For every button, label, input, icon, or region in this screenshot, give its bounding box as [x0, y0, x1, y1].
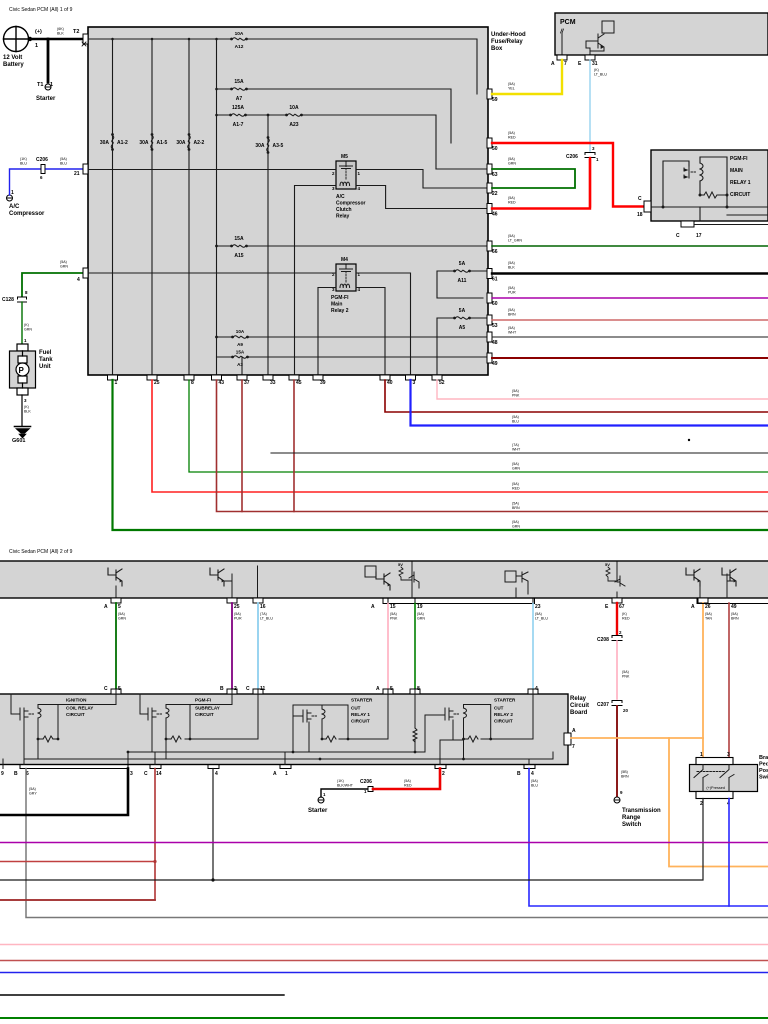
svg-text:(5A): (5A)	[508, 326, 515, 330]
node pin 50	[487, 138, 492, 148]
svg-text:Box: Box	[491, 46, 503, 52]
wire RED brn row	[0, 960, 768, 962]
svg-text:5V: 5V	[605, 562, 610, 567]
svg-text:PNK: PNK	[390, 617, 398, 621]
node pin 21	[83, 164, 88, 174]
svg-text:20: 20	[623, 708, 629, 713]
wire vertical branch A1-5	[151, 39, 153, 375]
svg-text:(5A): (5A)	[234, 612, 241, 616]
svg-text:17: 17	[696, 233, 702, 239]
svg-text:4: 4	[77, 277, 80, 283]
wire BLU board pinB4 down-right	[529, 769, 768, 907]
svg-text:CIRCUIT: CIRCUIT	[66, 712, 85, 717]
node pin 61	[487, 269, 492, 279]
wire RED row to pinC14	[0, 861, 155, 863]
connector C207	[612, 701, 622, 706]
svg-text:12 Volt: 12 Volt	[3, 55, 22, 61]
svg-text:Civic Sedan PCM (All) 1 of 9: Civic Sedan PCM (All) 1 of 9	[9, 7, 73, 13]
svg-text:15A: 15A	[234, 236, 244, 242]
svg-text:(5A): (5A)	[531, 779, 538, 783]
svg-text:A23: A23	[289, 122, 298, 128]
node pin 46	[487, 204, 492, 214]
svg-text:(7A): (7A)	[512, 443, 519, 447]
brake switch contacts	[694, 765, 734, 792]
svg-text:5A: 5A	[459, 261, 466, 267]
node bottom pin 25	[147, 375, 157, 380]
svg-text:CIRCUIT: CIRCUIT	[730, 192, 750, 198]
svg-text:BRN: BRN	[731, 617, 739, 621]
svg-text:A: A	[572, 728, 576, 734]
relay circuit board	[0, 694, 568, 765]
svg-text:125A: 125A	[232, 105, 244, 111]
node pin 48	[487, 332, 492, 342]
wire A15 row to pin66	[217, 245, 489, 247]
wire WHT pin48 right	[492, 336, 768, 338]
fuse A7 15A	[230, 88, 248, 91]
wire C206 to box pin 21 BLU	[46, 168, 82, 170]
wire vertical branch A3-5	[267, 115, 269, 375]
svg-text:A5: A5	[459, 325, 466, 331]
svg-text:Civic Sedan PCM (All) 2 of 9: Civic Sedan PCM (All) 2 of 9	[9, 549, 73, 555]
svg-text:SUBRELAY: SUBRELAY	[195, 706, 220, 711]
svg-text:(5A): (5A)	[29, 787, 36, 791]
node pin C 18	[644, 201, 651, 212]
connector C128	[18, 297, 27, 302]
node pin 66	[487, 241, 492, 251]
wire A1-7/A23 row	[217, 115, 437, 169]
wire RED C206 to joint	[589, 158, 591, 207]
svg-text:(5A): (5A)	[508, 234, 515, 238]
wire A9 row to pin 48	[217, 336, 489, 338]
svg-text:GRN: GRN	[512, 467, 520, 471]
svg-text:A: A	[104, 604, 108, 610]
svg-text:66: 66	[492, 249, 498, 255]
svg-text:LT_BLU: LT_BLU	[260, 617, 273, 621]
svg-text:1: 1	[700, 752, 703, 758]
fuse A1-2 30A	[111, 133, 114, 151]
svg-text:BLU: BLU	[512, 420, 519, 424]
wire BRN C207 to transmission range switch	[616, 706, 618, 797]
svg-text:43: 43	[219, 380, 225, 386]
relay2 drive resistor from pin 8	[413, 690, 417, 752]
svg-text:Compressor: Compressor	[336, 201, 366, 207]
wire BLK brake pin2 down-left	[0, 799, 703, 881]
svg-text:5V: 5V	[398, 562, 403, 567]
pcm driver square	[365, 566, 376, 577]
node bottom pin 3	[406, 375, 416, 380]
svg-text:(5A): (5A)	[512, 415, 519, 419]
wire RED pin25 down-right	[152, 380, 768, 492]
svg-text:39: 39	[320, 380, 326, 386]
svg-text:A: A	[551, 61, 555, 67]
wire LT_BLU pcm16 to board C11	[257, 603, 259, 690]
wire PUR row	[0, 842, 768, 844]
svg-text:BLU: BLU	[20, 162, 27, 166]
svg-text:WHT: WHT	[508, 331, 517, 335]
svg-text:18: 18	[637, 212, 643, 218]
fuse A11 5A with loop to pin 60	[437, 271, 488, 298]
svg-text:30A: 30A	[139, 140, 149, 146]
wire GRN row	[0, 1017, 768, 1019]
pcm driver for pin 5	[108, 568, 122, 586]
connector C208	[612, 636, 622, 641]
node board pin C 5	[111, 689, 121, 694]
pcm driver for 49	[722, 568, 736, 586]
svg-text:63: 63	[492, 172, 498, 178]
wire A3 row to pin 49	[217, 356, 489, 358]
svg-text:P: P	[19, 366, 25, 375]
board bottom connector strip left	[20, 765, 128, 769]
wire RED pcm67 to C208	[616, 603, 618, 634]
svg-text:C: C	[638, 196, 642, 202]
svg-text:1: 1	[35, 43, 38, 49]
wire GRN pin1 down-right	[113, 380, 768, 530]
svg-text:A1-5: A1-5	[157, 140, 168, 146]
svg-text:PUR: PUR	[234, 617, 242, 621]
svg-text:C: C	[246, 686, 250, 692]
svg-text:(5A): (5A)	[512, 462, 519, 466]
svg-text:Range: Range	[622, 815, 641, 821]
svg-text:8: 8	[191, 380, 194, 386]
svg-text:C: C	[104, 686, 108, 692]
wire PUR pcm25 to board B2	[231, 603, 233, 690]
svg-text:(6K): (6K)	[57, 27, 64, 31]
svg-text:C: C	[144, 771, 148, 777]
svg-text:(5A): (5A)	[512, 520, 519, 524]
svg-text:3: 3	[727, 752, 730, 758]
svg-text:BLK: BLK	[57, 32, 64, 36]
relay M5 A/C compressor clutch relay	[332, 154, 366, 220]
node PCM pin 16	[253, 598, 263, 603]
relay1 internal wiring	[651, 206, 768, 208]
svg-text:A1-2: A1-2	[117, 140, 128, 146]
pcm internal driver pin A7	[561, 33, 563, 55]
svg-text:(5A): (5A)	[508, 308, 515, 312]
svg-text:(5A): (5A)	[508, 131, 515, 135]
wire RED pin46 to C206	[492, 160, 590, 209]
svg-text:(5A): (5A)	[390, 612, 397, 616]
pcm internal driver pin E31	[602, 21, 614, 33]
svg-text:52: 52	[439, 380, 445, 386]
svg-text:Switch: Switch	[622, 822, 642, 828]
svg-text:(5A): (5A)	[731, 612, 738, 616]
node pin 4	[83, 268, 88, 278]
svg-text:CIRCUIT: CIRCUIT	[195, 712, 214, 717]
svg-text:CIRCUIT: CIRCUIT	[494, 719, 513, 724]
svg-text:YEL: YEL	[508, 87, 515, 91]
svg-text:BLU: BLU	[60, 162, 67, 166]
wire RED dark row left	[0, 899, 155, 901]
svg-text:Relay 2: Relay 2	[331, 308, 349, 314]
svg-text:A1-7: A1-7	[233, 122, 244, 128]
wire M5 pin4 to pin 46	[356, 186, 488, 209]
svg-text:(5A): (5A)	[508, 261, 515, 265]
svg-text:BRN: BRN	[512, 506, 520, 510]
svg-text:(5A): (5A)	[118, 612, 125, 616]
svg-text:C: C	[676, 233, 680, 239]
svg-text:(7A): (7A)	[260, 612, 267, 616]
node pin 63	[487, 164, 492, 174]
svg-text:BLK/WHT: BLK/WHT	[337, 784, 354, 788]
svg-text:IGNITION: IGNITION	[66, 698, 87, 703]
svg-text:G601: G601	[12, 438, 25, 444]
svg-text:16: 16	[260, 604, 266, 610]
svg-text:A: A	[273, 771, 277, 777]
svg-text:C207: C207	[597, 702, 609, 708]
svg-text:GRN: GRN	[508, 162, 516, 166]
node PCM pin 25	[227, 598, 237, 603]
svg-text:33: 33	[270, 380, 276, 386]
wire RED starter C206 to board pin2	[373, 769, 440, 790]
pcm driver square+tr for 23	[505, 571, 516, 582]
svg-text:LT_GRN: LT_GRN	[508, 239, 522, 243]
svg-text:(5A): (5A)	[508, 286, 515, 290]
wire PNK pin52 down-right	[437, 380, 768, 399]
svg-text:67: 67	[619, 604, 625, 610]
svg-text:Starter: Starter	[308, 808, 328, 814]
svg-text:CIRCUIT: CIRCUIT	[351, 719, 370, 724]
svg-text:RELAY 1: RELAY 1	[351, 712, 370, 717]
svg-text:GRN: GRN	[512, 525, 520, 529]
PCM bar (page 2)	[0, 561, 768, 598]
svg-text:(5B): (5B)	[621, 770, 628, 774]
svg-text:1: 1	[115, 380, 118, 386]
svg-text:7: 7	[564, 61, 567, 67]
node bottom pin 1	[108, 375, 118, 380]
wire battery junction down to starter	[47, 39, 50, 82]
svg-text:Board: Board	[570, 710, 588, 716]
svg-text:BLK: BLK	[24, 410, 31, 414]
svg-text:Swi: Swi	[759, 775, 768, 781]
fuel tank circuit: wire GRN from box pin 4	[22, 273, 84, 296]
node junction dots on bus	[111, 38, 218, 117]
svg-text:7: 7	[572, 744, 575, 750]
svg-text:A15: A15	[234, 253, 243, 259]
svg-text:Under-Hood: Under-Hood	[491, 32, 526, 38]
svg-text:(+): (+)	[35, 29, 42, 35]
wire BLK board pin3 down-left	[0, 769, 128, 816]
fuse A5 5A with feed from pin 52	[437, 318, 488, 375]
battery B1 12 Volt	[4, 27, 33, 52]
node pin 49	[487, 353, 492, 363]
svg-text:C206: C206	[36, 157, 48, 163]
wire YEL pin59 to PCM A7	[492, 60, 562, 94]
svg-text:59: 59	[492, 97, 498, 103]
svg-text:(5A): (5A)	[508, 196, 515, 200]
node board pin 8	[410, 689, 420, 694]
wire BLU brake pin4 down	[728, 799, 730, 907]
fuse A2-2 30A	[188, 133, 191, 151]
svg-text:BRN: BRN	[508, 313, 516, 317]
node PCM pin E 67	[612, 598, 622, 603]
svg-text:31: 31	[592, 61, 598, 67]
svg-text:Main: Main	[331, 302, 342, 308]
svg-text:A: A	[691, 604, 695, 610]
svg-text:30A: 30A	[255, 143, 265, 149]
svg-text:A11: A11	[458, 278, 467, 284]
pcm driver for A26	[686, 568, 700, 586]
fuse A23 10A	[285, 114, 303, 117]
svg-text:(K): (K)	[24, 405, 29, 409]
svg-text:5: 5	[390, 686, 393, 692]
svg-text:37: 37	[244, 380, 250, 386]
svg-text:A/C: A/C	[336, 194, 345, 200]
svg-text:15: 15	[390, 604, 396, 610]
wire RED pin50 to relay1	[492, 143, 644, 207]
svg-text:40: 40	[387, 380, 393, 386]
wire box pin4 to M4 pin2	[88, 272, 336, 274]
node T2 pin at box edge	[83, 34, 88, 44]
pcm driver for pin 16	[257, 566, 259, 598]
wire box pin21 to M5 pin2	[88, 169, 336, 171]
node pin 22	[487, 183, 492, 193]
node bottom pin 8	[184, 375, 194, 380]
connector C206 (PCM)	[585, 153, 595, 158]
node board pin B 2	[227, 689, 237, 694]
wire PUR pin60 right	[492, 297, 768, 299]
wire A3 node to bottom pin 37	[241, 357, 243, 375]
svg-text:53: 53	[492, 323, 498, 329]
wire M4 pin4 to bottom pin 40	[356, 288, 385, 376]
svg-text:49: 49	[731, 604, 737, 610]
svg-text:M5: M5	[341, 154, 348, 160]
wire battery to fuse box (BLK)	[32, 38, 84, 40]
connector strip A (pins 15/19/23)	[383, 598, 535, 604]
ground G601	[15, 427, 31, 438]
fuse A3 15A	[231, 356, 249, 359]
node bottom pin 37	[237, 375, 247, 380]
svg-text:49: 49	[492, 361, 498, 367]
wire GRY board pin6 down-right	[26, 769, 768, 918]
svg-text:Fuse/Relay: Fuse/Relay	[491, 39, 523, 45]
wire A7 row	[217, 89, 452, 143]
PGM-FI main relay 1 circuit box	[651, 150, 768, 221]
svg-text:14: 14	[156, 771, 162, 777]
svg-text:CUT: CUT	[351, 706, 361, 711]
svg-text:(1K): (1K)	[337, 779, 344, 783]
svg-text:B: B	[220, 686, 224, 692]
svg-text:8: 8	[417, 686, 420, 692]
svg-text:2: 2	[442, 771, 445, 777]
svg-text:PGM-FI: PGM-FI	[730, 156, 748, 162]
svg-text:5: 5	[118, 686, 121, 692]
svg-text:4: 4	[531, 771, 534, 777]
svg-text:RELAY 1: RELAY 1	[730, 180, 751, 186]
starter (page 2)	[318, 797, 324, 803]
svg-text:RED: RED	[404, 784, 412, 788]
node pin C 17 below relay1	[681, 221, 694, 227]
svg-text:2: 2	[234, 686, 237, 692]
svg-text:Transmission: Transmission	[622, 808, 661, 814]
wire PNK pcm15 to board A5	[387, 604, 389, 691]
connector C206 (starter)	[368, 787, 373, 792]
svg-text:(1K): (1K)	[20, 157, 27, 161]
node bottom pin 45	[289, 375, 299, 380]
wire M4 pin1 to bottom pin 3	[356, 273, 411, 375]
wire GRN loop 63 to 22	[492, 169, 575, 188]
node bottom pin 39	[313, 375, 323, 380]
svg-text:11: 11	[260, 686, 266, 692]
svg-text:LT_BLU: LT_BLU	[535, 617, 548, 621]
svg-text:Pos: Pos	[759, 768, 768, 774]
wire main bus top	[88, 39, 477, 94]
svg-text:Starter: Starter	[36, 96, 56, 102]
fuse A1-7 125A	[229, 114, 247, 117]
svg-text:(5A): (5A)	[512, 482, 519, 486]
svg-text:C206: C206	[360, 779, 372, 785]
wire BRN pcm49 to brake switch pin3	[728, 603, 730, 758]
svg-text:(5A): (5A)	[60, 260, 67, 264]
wire A/C compressor BLU	[10, 169, 41, 195]
svg-text:LT_BLU: LT_BLU	[594, 73, 607, 77]
wire BLK/WHT starter to C206	[321, 789, 367, 797]
svg-text:3: 3	[130, 771, 133, 777]
svg-text:(5A): (5A)	[404, 779, 411, 783]
svg-text:15A: 15A	[236, 350, 245, 355]
svg-text:4: 4	[215, 771, 218, 777]
svg-text:25: 25	[234, 604, 240, 610]
svg-text:RELAY 2: RELAY 2	[494, 712, 513, 717]
relay M4 PGM-FI main relay 2	[331, 257, 361, 314]
svg-text:COIL RELAY: COIL RELAY	[66, 706, 93, 711]
svg-text:23: 23	[535, 604, 541, 610]
svg-text:(5A): (5A)	[508, 157, 515, 161]
svg-text:(5A): (5A)	[512, 389, 519, 393]
svg-text:PGM-FI: PGM-FI	[331, 295, 349, 301]
svg-text:Clutch: Clutch	[336, 207, 352, 213]
svg-text:48: 48	[492, 340, 498, 346]
svg-text:RED: RED	[622, 617, 630, 621]
connector C206 (A/C)	[41, 165, 45, 174]
svg-text:(5A): (5A)	[535, 612, 542, 616]
svg-text:PUR: PUR	[508, 291, 516, 295]
node bottom pin 43	[212, 375, 222, 380]
node board pin 4	[528, 689, 538, 694]
svg-text:1: 1	[285, 771, 288, 777]
A/C compressor (left)	[7, 195, 13, 201]
wire WHT row	[271, 452, 768, 454]
svg-text:CUT: CUT	[494, 706, 504, 711]
svg-text:T2: T2	[73, 29, 79, 35]
fuse A15 15A	[230, 245, 248, 248]
svg-text:C206: C206	[566, 154, 578, 160]
fuel tank unit (pump)	[10, 344, 36, 395]
svg-text:T1: T1	[37, 82, 43, 88]
svg-text:Circuit: Circuit	[570, 703, 589, 709]
svg-text:5A: 5A	[459, 308, 466, 314]
svg-text:BLU: BLU	[531, 784, 538, 788]
svg-text:9: 9	[1, 771, 4, 777]
node bottom pin 40	[380, 375, 390, 380]
svg-text:C128: C128	[2, 297, 14, 303]
svg-text:MAIN: MAIN	[730, 168, 743, 174]
svg-text:Tank: Tank	[39, 357, 53, 363]
svg-text:RED: RED	[508, 201, 516, 205]
fuse A3-5 30A	[267, 136, 270, 154]
wire M5 pin3 to bottom pin 45	[295, 186, 337, 376]
wire board pin B4 internal	[528, 759, 530, 765]
svg-text:BLK: BLK	[508, 266, 515, 270]
svg-text:46: 46	[492, 212, 498, 218]
svg-text:19: 19	[417, 604, 423, 610]
svg-text:1: 1	[11, 190, 14, 196]
svg-text:M4: M4	[341, 257, 348, 263]
svg-text:GRN: GRN	[118, 617, 126, 621]
wire LT_BLU pcm23 to board 4	[532, 604, 534, 691]
brake pedal position switch	[690, 765, 758, 792]
wire node 63 from A23 vertical	[436, 168, 488, 170]
svg-text:A7: A7	[236, 96, 243, 102]
